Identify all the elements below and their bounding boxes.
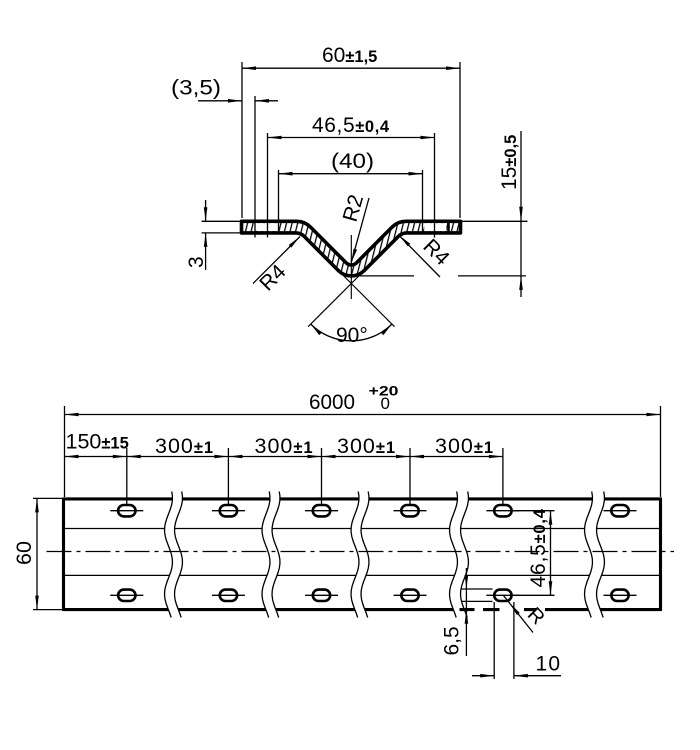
strip right edge bbox=[659, 498, 662, 612]
leader R4 (right) bbox=[399, 235, 440, 277]
centerline (dash-dot) bbox=[47, 551, 675, 553]
dimension 46,5±0,4 (top view) bbox=[268, 133, 435, 238]
strip left edge bbox=[62, 498, 65, 612]
inner bend lines bbox=[64, 529, 661, 576]
svg-text:10: 10 bbox=[536, 653, 562, 676]
dimension (40) bbox=[279, 170, 423, 233]
svg-text:(40): (40) bbox=[331, 149, 374, 173]
dimension 15±0,5 (right side) bbox=[353, 131, 528, 297]
dimension 10 bbox=[472, 602, 561, 679]
svg-text:60: 60 bbox=[12, 541, 36, 565]
slot centermarks top row bbox=[110, 510, 636, 512]
svg-text:60±1,5: 60±1,5 bbox=[322, 44, 377, 67]
strip top edge bbox=[64, 497, 661, 500]
slot centermarks bottom row bbox=[110, 594, 636, 596]
svg-text:0: 0 bbox=[381, 394, 390, 413]
dimension 60±1,5 bbox=[242, 62, 460, 218]
slotted holes top row bbox=[118, 505, 629, 516]
dimension 3 (thickness, left) bbox=[202, 200, 248, 270]
unhatched zone left flat bbox=[256, 223, 277, 231]
slotted holes bottom row bbox=[118, 590, 629, 601]
svg-text:6,5: 6,5 bbox=[441, 626, 464, 655]
construction lines of 90° vertex bbox=[301, 233, 402, 327]
dimension 6000 +20/0 bbox=[65, 406, 661, 497]
svg-text:90°: 90° bbox=[336, 324, 368, 347]
dimension 46,5±0,4 (bottom view) bbox=[513, 511, 555, 596]
leader R2 bbox=[351, 198, 369, 263]
dimension 60 (bottom view left) bbox=[33, 498, 64, 609]
svg-text:46,5±0,4: 46,5±0,4 bbox=[527, 508, 550, 587]
strip bottom edge bbox=[64, 608, 661, 611]
dimension 6,5 bbox=[461, 568, 493, 656]
svg-text:3: 3 bbox=[185, 256, 208, 268]
svg-text:(3,5): (3,5) bbox=[171, 76, 221, 100]
dimension (3,5) bbox=[198, 96, 278, 238]
heavy mark right flat bbox=[447, 222, 450, 233]
svg-text:15±0,5: 15±0,5 bbox=[498, 135, 521, 190]
svg-text:46,5±0,4: 46,5±0,4 bbox=[312, 114, 390, 137]
svg-text:6000: 6000 bbox=[309, 390, 355, 414]
profile cross-section outline with hatching bbox=[242, 221, 461, 276]
break lines (wavy) bbox=[165, 492, 605, 618]
unhatched zone right flat bbox=[424, 223, 446, 231]
leader R (slot radius) bbox=[504, 596, 534, 633]
dimension row 150±15 / 300±1 bbox=[65, 448, 503, 505]
90° angle arc with arrows bbox=[311, 324, 392, 341]
leader R4 (left) bbox=[253, 237, 300, 284]
